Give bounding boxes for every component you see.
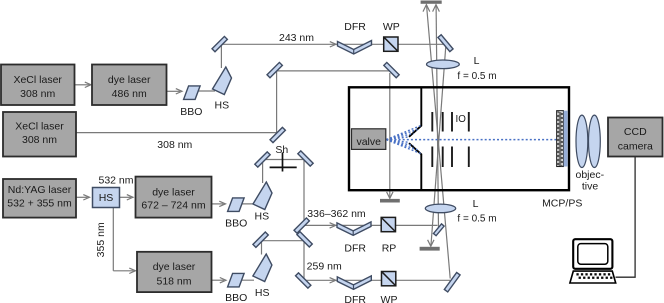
svg-text:355 nm: 355 nm — [95, 222, 107, 257]
svg-text:243 nm: 243 nm — [279, 32, 314, 44]
svg-text:DFR: DFR — [344, 294, 366, 303]
svg-text:valve: valve — [356, 136, 381, 148]
svg-text:WP: WP — [383, 21, 400, 33]
svg-text:308 nm: 308 nm — [20, 88, 55, 100]
svg-text:objec-: objec- — [575, 169, 604, 181]
svg-text:HS: HS — [255, 211, 270, 223]
svg-text:HS: HS — [215, 100, 230, 112]
svg-text:RP: RP — [382, 243, 397, 255]
svg-text:MCP/PS: MCP/PS — [542, 197, 582, 209]
svg-text:336–362 nm: 336–362 nm — [307, 208, 366, 220]
svg-text:HS: HS — [255, 287, 270, 299]
svg-text:WP: WP — [381, 294, 398, 303]
svg-text:DFR: DFR — [344, 243, 366, 255]
svg-text:BBO: BBO — [225, 292, 247, 303]
svg-text:f = 0.5 m: f = 0.5 m — [457, 213, 496, 224]
svg-text:L: L — [473, 198, 479, 210]
svg-text:f = 0.5 m: f = 0.5 m — [457, 71, 496, 82]
svg-text:L: L — [474, 55, 480, 67]
svg-text:532 nm: 532 nm — [98, 175, 133, 187]
svg-text:532 + 355 nm: 532 + 355 nm — [7, 198, 72, 210]
svg-text:486 nm: 486 nm — [112, 88, 147, 100]
svg-text:camera: camera — [618, 141, 653, 153]
svg-text:308 nm: 308 nm — [22, 134, 57, 146]
svg-text:HS: HS — [99, 192, 114, 204]
svg-text:tive: tive — [582, 180, 599, 192]
svg-text:DFR: DFR — [344, 21, 366, 33]
svg-text:XeCl laser: XeCl laser — [15, 120, 64, 132]
svg-text:dye laser: dye laser — [152, 186, 195, 198]
svg-text:Nd:YAG laser: Nd:YAG laser — [8, 184, 72, 196]
svg-text:XeCl laser: XeCl laser — [13, 74, 62, 86]
svg-text:672 – 724 nm: 672 – 724 nm — [141, 199, 205, 211]
svg-text:518 nm: 518 nm — [156, 275, 191, 287]
svg-text:dye laser: dye laser — [108, 74, 151, 86]
svg-text:IO: IO — [456, 114, 467, 125]
svg-text:dye laser: dye laser — [153, 261, 196, 273]
svg-text:259 nm: 259 nm — [307, 261, 342, 273]
svg-text:BBO: BBO — [225, 217, 247, 229]
svg-text:Sh: Sh — [275, 144, 288, 156]
svg-text:CCD: CCD — [624, 126, 647, 138]
svg-text:BBO: BBO — [180, 106, 202, 118]
svg-text:308 nm: 308 nm — [157, 139, 192, 151]
